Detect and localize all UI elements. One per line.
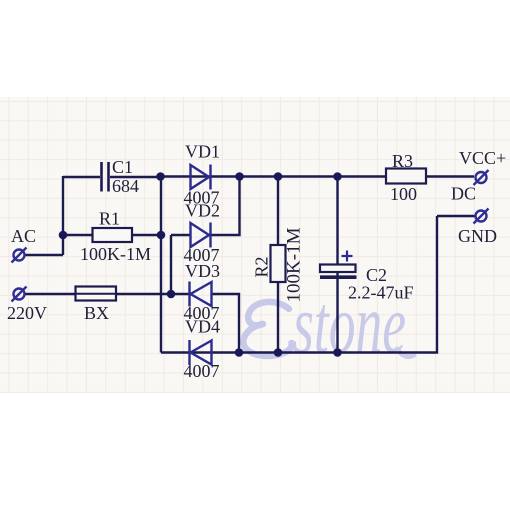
svg-text:100K-1M: 100K-1M [80, 244, 151, 264]
svg-text:AC: AC [11, 226, 36, 246]
svg-text:VCC+: VCC+ [459, 148, 506, 168]
svg-text:VD3: VD3 [185, 261, 220, 281]
svg-text:VD4: VD4 [185, 317, 220, 337]
svg-text:VD1: VD1 [185, 142, 220, 162]
svg-text:BX: BX [84, 303, 109, 323]
svg-text:684: 684 [112, 176, 139, 196]
svg-text:2.2-47uF: 2.2-47uF [348, 283, 414, 303]
svg-text:R1: R1 [99, 209, 120, 229]
svg-text:DC: DC [451, 184, 476, 204]
svg-text:220V: 220V [7, 303, 47, 323]
svg-text:VD2: VD2 [185, 201, 220, 221]
svg-text:R3: R3 [392, 151, 413, 171]
svg-text:100K-1M: 100K-1M [283, 227, 304, 302]
svg-text:R2: R2 [252, 256, 272, 277]
svg-text:GND: GND [458, 226, 497, 246]
svg-text:4007: 4007 [184, 361, 220, 381]
svg-text:C1: C1 [112, 157, 133, 177]
svg-text:100: 100 [390, 184, 417, 204]
